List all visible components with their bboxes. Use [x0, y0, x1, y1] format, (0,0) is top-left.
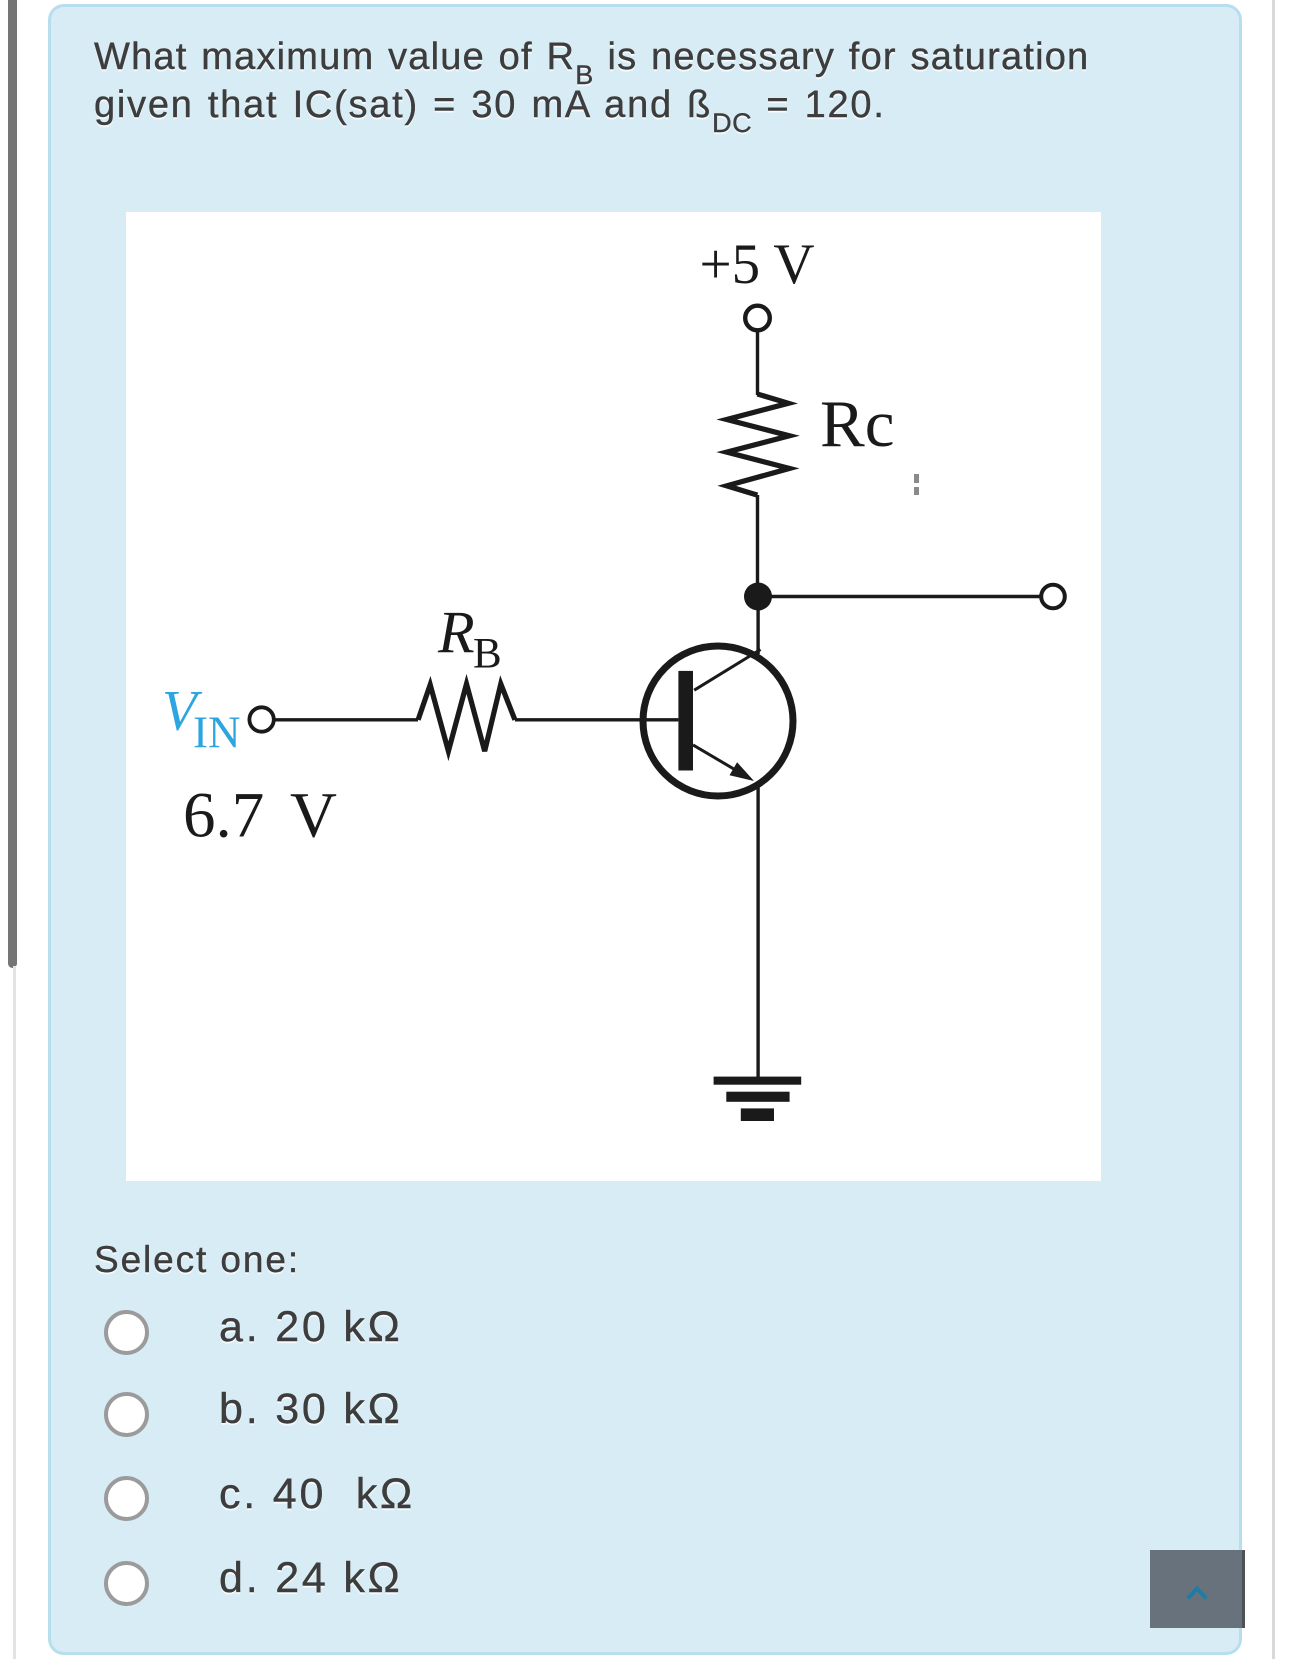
left scrollbar track [13, 966, 16, 1659]
wire node to transistor collector [756, 596, 759, 654]
collector diagonal [694, 650, 760, 691]
left scrollbar thumb [8, 0, 17, 968]
radio c [104, 1476, 149, 1521]
wire node to output terminal [758, 595, 1042, 598]
resistor Rc [727, 394, 790, 495]
ground bar 2 [726, 1092, 789, 1102]
wire terminal to Rc [756, 330, 759, 395]
transistor base bar [678, 671, 693, 771]
stray colon artifact [914, 474, 919, 483]
wire RB to base [515, 718, 679, 721]
svg-text:V: V [290, 780, 337, 852]
option b [219, 1388, 403, 1431]
option d [219, 1557, 403, 1600]
VIN terminal [249, 707, 273, 731]
radio a [104, 1310, 149, 1355]
node junction dot [744, 583, 772, 611]
svg-text:+5 V: +5 V [699, 233, 814, 296]
svg-text:6.7: 6.7 [183, 780, 264, 852]
right scrollbar track [1272, 0, 1275, 1659]
svg-text:B: B [473, 630, 502, 677]
ground bar 1 [714, 1077, 802, 1085]
svg-text:Rc: Rc [820, 387, 894, 461]
scroll-to-top button [1150, 1550, 1245, 1628]
resistor RB [418, 684, 515, 751]
emitter arrowhead [730, 762, 755, 781]
wire VIN to RB [274, 718, 418, 721]
radio b [104, 1392, 149, 1437]
svg-text:R: R [437, 600, 475, 666]
Select one prompt [94, 1238, 300, 1281]
transistor Q1 circle [643, 646, 793, 796]
emitter diagonal [693, 745, 744, 775]
svg-text:IN: IN [193, 707, 240, 757]
wire Rc to node [756, 495, 759, 596]
radio d [104, 1561, 149, 1606]
wire emitter down [756, 787, 759, 1077]
circuit figure white box [126, 212, 1101, 1181]
output terminal [1041, 585, 1065, 609]
+5V terminal [745, 306, 770, 331]
chevron up icon [1188, 1589, 1207, 1599]
option a [219, 1306, 403, 1349]
ground bar 3 [741, 1108, 774, 1121]
option c [219, 1473, 415, 1516]
question text [94, 33, 1214, 129]
